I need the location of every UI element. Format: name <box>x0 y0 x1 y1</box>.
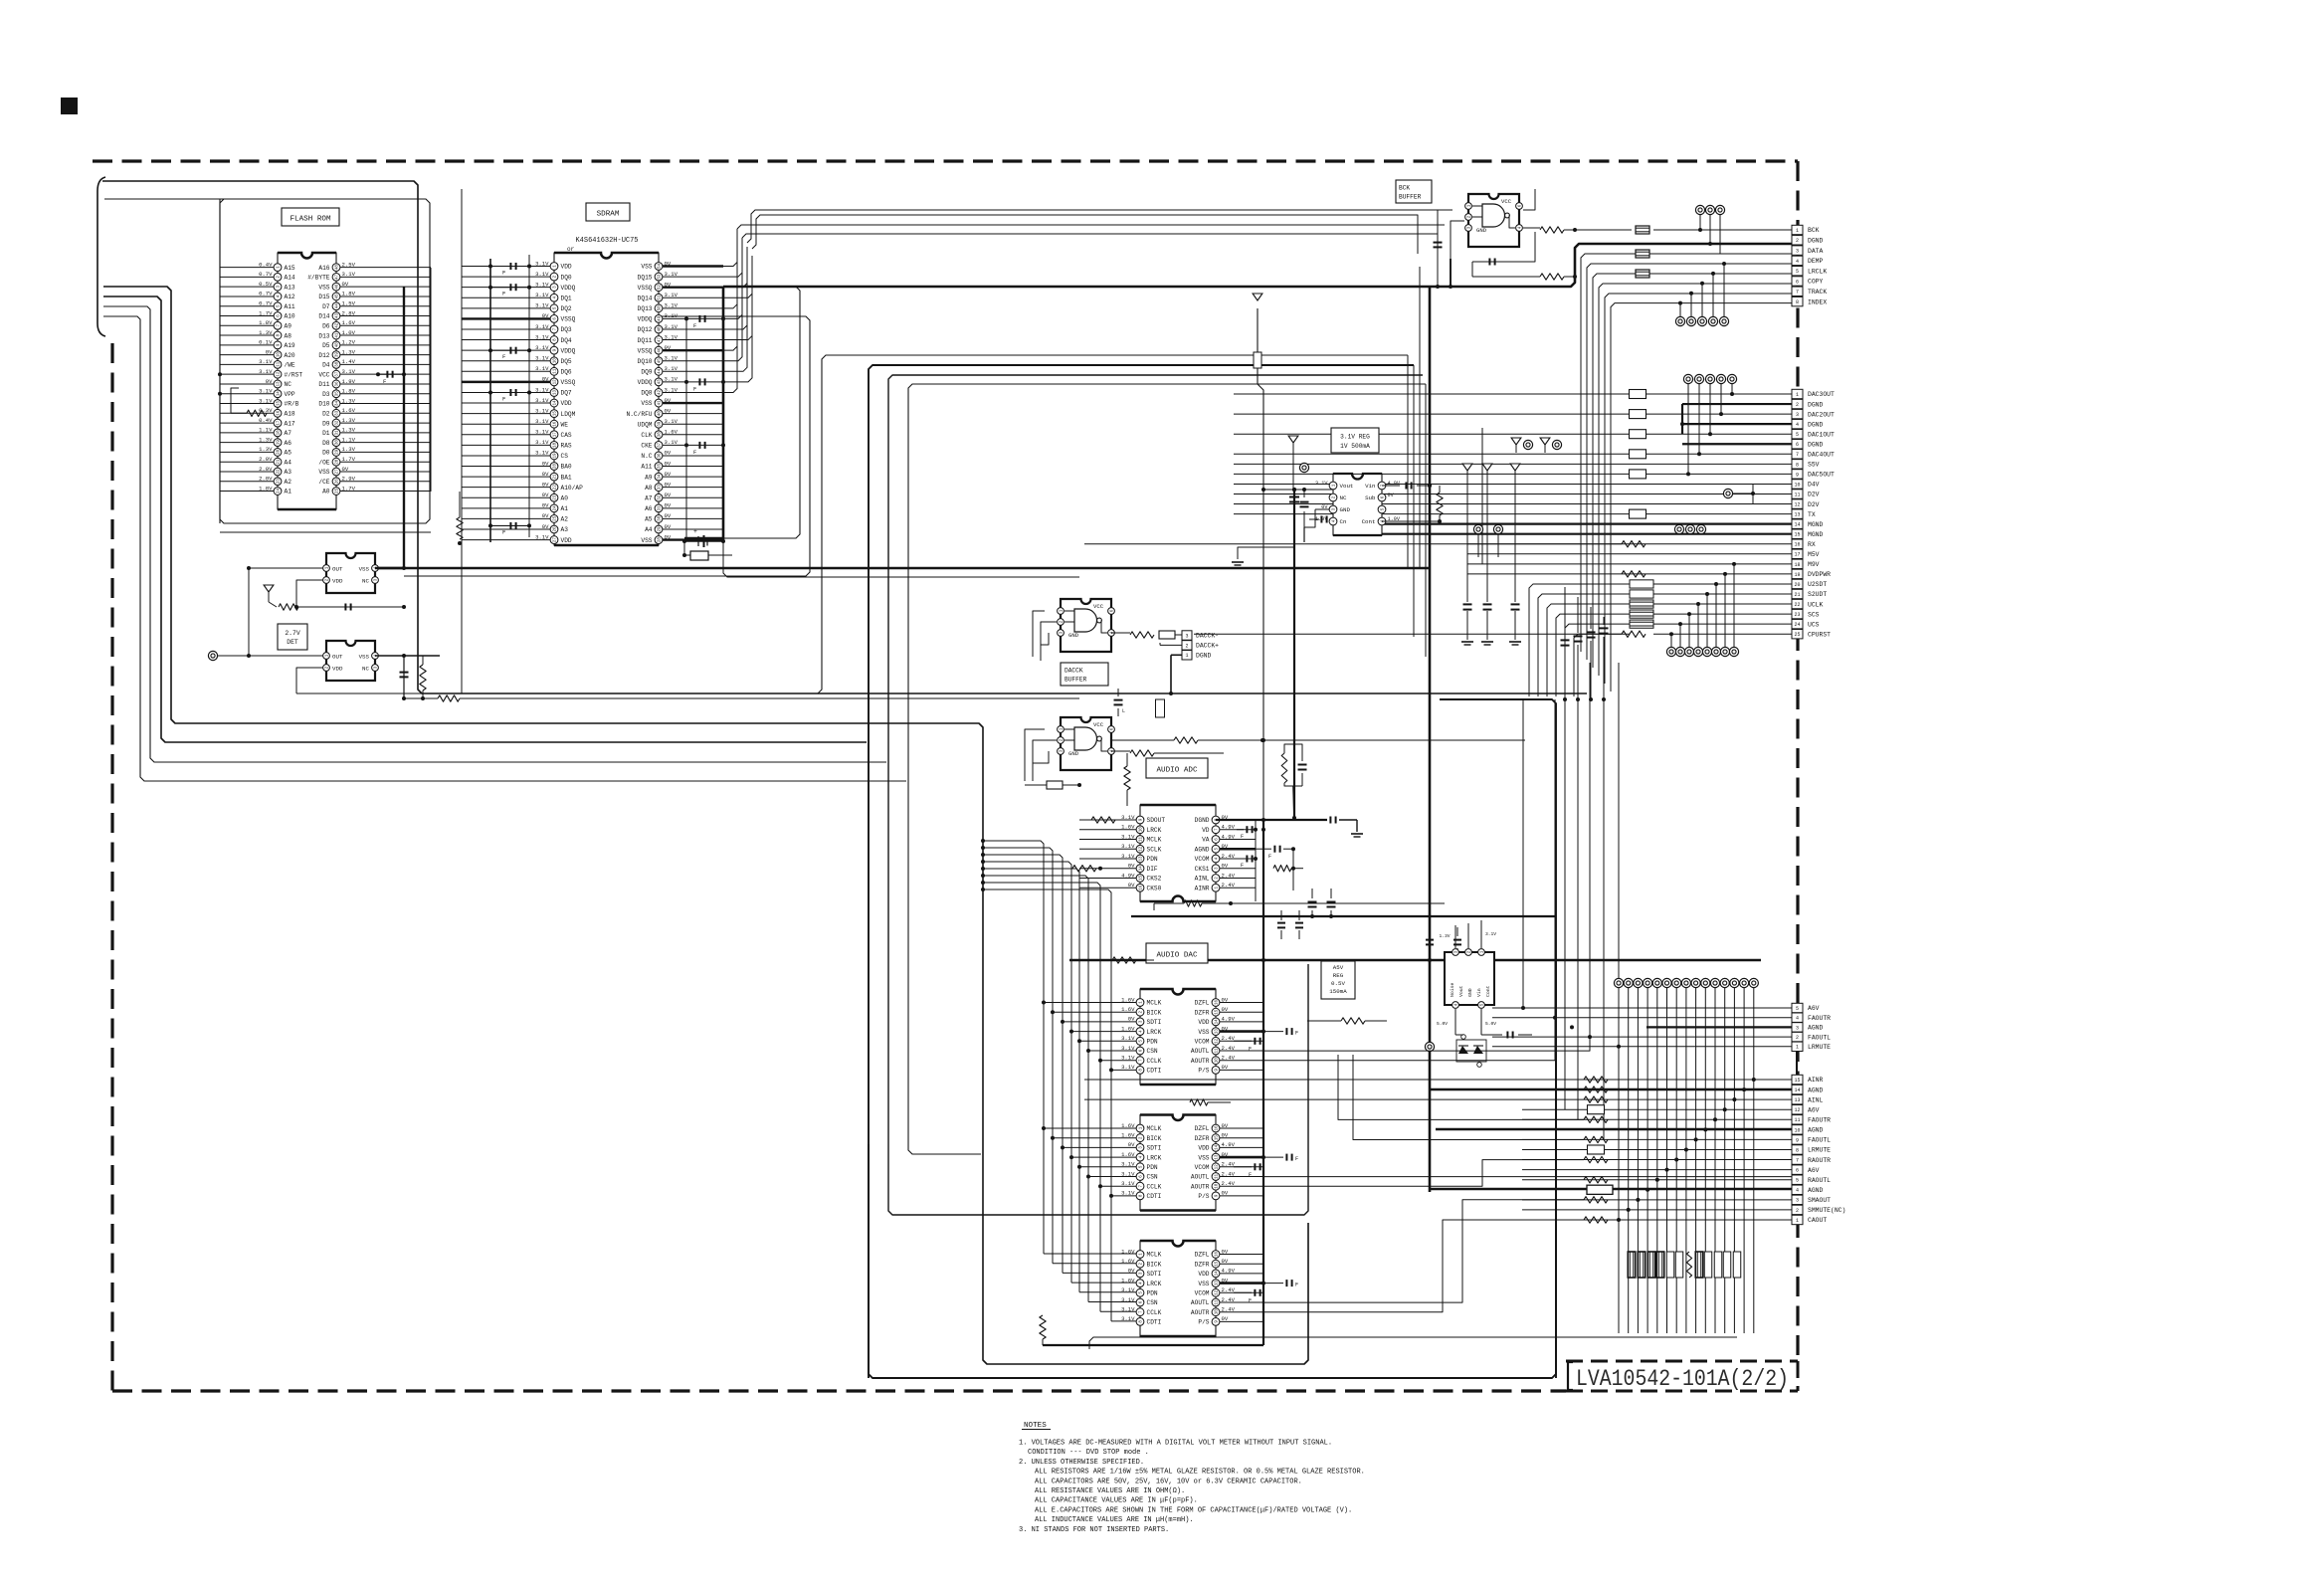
d2v test point <box>1723 489 1732 497</box>
svg-text:M5V: M5V <box>1808 551 1820 558</box>
svg-text:BUFFER: BUFFER <box>1065 677 1087 684</box>
svg-text:1.7V: 1.7V <box>259 309 273 316</box>
label 2.7v det box <box>278 624 307 650</box>
svg-text:0V: 0V <box>266 378 273 385</box>
svg-text:0.4V: 0.4V <box>259 417 273 424</box>
svg-text:DQ10: DQ10 <box>638 358 653 365</box>
ic audio adc U9 <box>1140 805 1216 901</box>
svg-text:VSS: VSS <box>641 537 652 544</box>
svg-text:1.0V: 1.0V <box>342 329 356 336</box>
svg-text:46: 46 <box>336 284 340 290</box>
wire flash right bus verticals <box>430 268 432 492</box>
svg-text:14: 14 <box>1794 522 1800 528</box>
svg-text:K4S641632H-UC75: K4S641632H-UC75 <box>575 237 638 245</box>
svg-text:1.6V: 1.6V <box>342 407 356 414</box>
svg-text:PDN: PDN <box>1147 1164 1158 1171</box>
svg-text:VDD: VDD <box>1198 1271 1209 1278</box>
svg-text:3.1V: 3.1V <box>1315 481 1328 487</box>
svg-text:A1: A1 <box>561 505 569 512</box>
svg-text:F: F <box>1249 1172 1252 1178</box>
svg-text:VDD: VDD <box>561 400 572 407</box>
svg-text:DQ11: DQ11 <box>638 337 653 344</box>
svg-text:A5: A5 <box>285 450 292 457</box>
svg-text:D1: D1 <box>322 430 330 437</box>
svg-text:16: 16 <box>1216 1000 1220 1006</box>
svg-text:8: 8 <box>1796 1147 1799 1153</box>
svg-text:BUFFER: BUFFER <box>1399 194 1422 201</box>
svg-text:BICK: BICK <box>1147 1135 1162 1142</box>
svg-text:10: 10 <box>1140 827 1144 833</box>
wires to connector CN4 <box>1084 1079 1792 1081</box>
svg-text:0V: 0V <box>665 471 672 478</box>
svg-text:3.1V: 3.1V <box>535 323 549 330</box>
svg-text:2.4V: 2.4V <box>1222 1161 1236 1168</box>
svg-text:0V: 0V <box>1222 1122 1229 1129</box>
svg-text:11: 11 <box>1140 837 1144 843</box>
svg-text:+: + <box>693 528 697 535</box>
svg-text:Vin: Vin <box>1365 483 1375 490</box>
svg-text:SCLK: SCLK <box>1147 846 1162 853</box>
wire cn3 to cn4 link <box>1796 1027 1798 1080</box>
svg-text:CKS2: CKS2 <box>1147 876 1162 883</box>
capacitor cn <box>1309 518 1319 520</box>
capacitor reset <box>344 604 346 611</box>
svg-text:D9: D9 <box>322 420 330 427</box>
wire dacck nand in <box>1033 611 1045 657</box>
svg-text:DACCK+: DACCK+ <box>1196 643 1219 650</box>
wire bottom long return <box>868 1144 870 1378</box>
svg-text:23: 23 <box>1794 612 1800 618</box>
svg-text:1.6V: 1.6V <box>342 319 356 326</box>
svg-text:NC: NC <box>1340 494 1347 501</box>
svg-text:16: 16 <box>1216 1125 1220 1131</box>
svg-text:AOUTL: AOUTL <box>1191 1048 1210 1055</box>
svg-text:13: 13 <box>1216 1154 1220 1160</box>
svg-text:0V: 0V <box>1128 1268 1135 1275</box>
svg-text:0V: 0V <box>665 481 672 488</box>
svg-text:31: 31 <box>336 430 340 436</box>
svg-text:1.6V: 1.6V <box>1121 1132 1135 1139</box>
svg-text:SMMUTE(NC): SMMUTE(NC) <box>1808 1207 1845 1214</box>
svg-text:2.8V: 2.8V <box>342 309 356 316</box>
svg-text:VCOM: VCOM <box>1195 1290 1210 1297</box>
svg-text:1.1V: 1.1V <box>259 427 273 434</box>
svg-text:L: L <box>1122 708 1125 714</box>
wires to connector CN2 long rows <box>1234 393 1792 395</box>
wire reset2 vdd <box>296 668 326 693</box>
wire flash left pin stubs <box>220 267 278 269</box>
wire dac signal bus verticals <box>983 841 1044 1254</box>
svg-text:A9: A9 <box>645 474 653 481</box>
svg-text:10: 10 <box>1794 1127 1800 1133</box>
svg-text:A8: A8 <box>285 332 292 339</box>
wire flash bottom return <box>220 531 431 533</box>
svg-text:2.4V: 2.4V <box>1222 1055 1236 1062</box>
connector dacck 3pin <box>1182 631 1192 640</box>
capacitor adc vcom <box>1237 858 1244 860</box>
svg-text:0V: 0V <box>542 312 549 319</box>
wire agnd row10 feed <box>1436 1128 1792 1130</box>
wire 5v vertical x1564 lower <box>1555 960 1557 1378</box>
svg-text:3.1V: 3.1V <box>1121 843 1135 850</box>
svg-text:BCK: BCK <box>1399 185 1410 192</box>
svg-text:F: F <box>1249 1297 1252 1303</box>
svg-text:D7: D7 <box>322 303 330 310</box>
capacitor dac2 vcom <box>1234 1166 1252 1168</box>
svg-text:3: 3 <box>1796 1198 1799 1204</box>
capacitor bck vcc <box>1472 261 1512 263</box>
junction dots flash <box>218 372 222 376</box>
wire sdram left rails <box>461 189 463 693</box>
svg-text:3.1V: 3.1V <box>665 271 678 278</box>
svg-text:BICK: BICK <box>1147 1261 1162 1268</box>
resistor bck out <box>1540 227 1564 233</box>
wire agnd row4 feed <box>1430 1188 1792 1190</box>
svg-text:3.1V: 3.1V <box>1121 1315 1135 1322</box>
svg-text:D8: D8 <box>322 440 330 447</box>
svg-text:14: 14 <box>1216 1019 1220 1025</box>
test points above cn2 <box>1683 374 1692 383</box>
svg-text:1.7V: 1.7V <box>342 485 356 492</box>
svg-text:2.4V: 2.4V <box>1222 872 1236 879</box>
svg-text:D12: D12 <box>318 352 329 359</box>
svg-text:10: 10 <box>278 352 282 358</box>
svg-text:1.6V: 1.6V <box>1121 1248 1135 1255</box>
svg-text:F: F <box>1241 863 1244 869</box>
svg-text:A18: A18 <box>285 411 295 418</box>
svg-text:0V: 0V <box>266 348 273 355</box>
test points top right <box>1695 205 1704 214</box>
svg-text:FAOUTR: FAOUTR <box>1808 1015 1831 1022</box>
svg-text:24: 24 <box>554 505 558 511</box>
svg-text:2.4V: 2.4V <box>1222 1045 1236 1052</box>
svg-text:A11: A11 <box>641 464 652 471</box>
svg-text:VCOM: VCOM <box>1195 856 1210 863</box>
svg-text:3. NI STANDS FOR NOT INSERTED: 3. NI STANDS FOR NOT INSERTED PARTS. <box>1019 1526 1169 1534</box>
svg-text:10: 10 <box>1216 1183 1220 1189</box>
svg-text:22: 22 <box>554 485 558 491</box>
ground tp pairs <box>1511 438 1521 445</box>
svg-text:A2: A2 <box>285 479 292 486</box>
svg-text:VDD: VDD <box>561 537 572 544</box>
wire middle vertical V1 <box>869 365 1556 1378</box>
svg-text:DQ3: DQ3 <box>561 326 572 333</box>
svg-text:AOUTL: AOUTL <box>1191 1299 1210 1306</box>
svg-text:LRCLK: LRCLK <box>1808 268 1827 275</box>
svg-text:3.1V: 3.1V <box>535 344 549 351</box>
svg-text:27: 27 <box>336 469 340 475</box>
svg-text:1.6V: 1.6V <box>1121 996 1135 1003</box>
svg-text:17: 17 <box>1794 552 1800 558</box>
svg-text:3.1V: 3.1V <box>1121 1306 1135 1313</box>
svg-text:1: 1 <box>1796 392 1799 398</box>
svg-text:2.4V: 2.4V <box>1222 1306 1236 1313</box>
svg-text:DZFL: DZFL <box>1195 1125 1210 1132</box>
wire sdram right fan to top <box>723 229 737 267</box>
svg-text:14: 14 <box>1140 866 1144 872</box>
svg-text:0V: 0V <box>665 512 672 519</box>
svg-text:F: F <box>502 291 505 297</box>
svg-text:A6: A6 <box>285 440 292 447</box>
svg-text:DQ13: DQ13 <box>638 305 653 312</box>
svg-text:SDTI: SDTI <box>1147 1019 1162 1026</box>
svg-text:ALL CAPACITORS ARE 50V, 25V, 1: ALL CAPACITORS ARE 50V, 25V, 16V, 10V or… <box>1035 1478 1302 1485</box>
svg-text:P/S: P/S <box>1198 1193 1209 1200</box>
svg-text:0V: 0V <box>1222 1064 1229 1071</box>
test points below cn2 <box>1666 647 1675 656</box>
svg-text:0V: 0V <box>665 460 672 467</box>
svg-text:1.9V: 1.9V <box>1315 516 1328 522</box>
svg-text:3: 3 <box>1185 633 1188 639</box>
svg-text:16: 16 <box>1794 542 1800 548</box>
svg-text:3.1V: 3.1V <box>535 281 549 288</box>
fuse dacck <box>1159 631 1175 639</box>
svg-text:3.1V: 3.1V <box>665 418 678 425</box>
svg-text:DGND: DGND <box>1808 238 1824 245</box>
svg-text:28: 28 <box>659 537 663 543</box>
svg-text:5.0V: 5.0V <box>1437 1021 1448 1027</box>
wires to connector CN1 <box>1581 254 1792 652</box>
svg-text:3.1V: 3.1V <box>1121 1296 1135 1303</box>
svg-text:F: F <box>1268 854 1271 860</box>
svg-text:0V: 0V <box>542 481 549 488</box>
svg-text:CONDITION --- DVD STOP mode .: CONDITION --- DVD STOP mode . <box>1028 1449 1149 1457</box>
svg-text:CCLK: CCLK <box>1147 1183 1162 1190</box>
capacitor adc vd <box>1237 829 1244 831</box>
svg-text:DAC2OUT: DAC2OUT <box>1808 411 1835 418</box>
svg-text:CSN: CSN <box>1147 1299 1158 1306</box>
svg-text:12: 12 <box>278 371 282 377</box>
svg-text:0V: 0V <box>1222 1151 1229 1158</box>
svg-text:3.1V: 3.1V <box>535 418 549 425</box>
ferrite bck line <box>1636 226 1649 234</box>
wire sdram to bck long <box>737 225 1445 229</box>
capacitor dac3 vss <box>1263 1283 1283 1284</box>
svg-text:0V: 0V <box>665 260 672 267</box>
svg-text:14: 14 <box>1794 1087 1800 1093</box>
svg-text:11: 11 <box>278 361 282 367</box>
svg-text:31: 31 <box>659 505 663 511</box>
svg-text:2: 2 <box>1185 643 1188 649</box>
svg-text:/CE: /CE <box>318 479 329 486</box>
svg-text:2.0V: 2.0V <box>259 456 273 463</box>
svg-text:3.1V: 3.1V <box>1121 814 1135 821</box>
svg-text:13: 13 <box>1794 1097 1800 1103</box>
svg-text:GND: GND <box>1068 750 1079 757</box>
resistor bck lower <box>1540 274 1564 280</box>
svg-text:16: 16 <box>554 421 558 427</box>
svg-text:AUDIO ADC: AUDIO ADC <box>1156 767 1197 775</box>
ferrite bars bottom right <box>1628 1252 1636 1278</box>
svg-text:F: F <box>693 386 696 392</box>
resistor dacck2 out b <box>1174 737 1198 743</box>
svg-text:25: 25 <box>336 489 340 494</box>
svg-text:LDQM: LDQM <box>561 411 576 418</box>
svg-text:ALL INDUCTANCE VALUES ARE IN μ: ALL INDUCTANCE VALUES ARE IN μH(m=mH). <box>1035 1516 1194 1524</box>
svg-text:ALL RESISTORS ARE 1/16W ±5% M: ALL RESISTORS ARE 1/16W ±5% METAL GLAZE … <box>1035 1469 1365 1477</box>
svg-text:1.2V: 1.2V <box>342 339 356 346</box>
svg-text:OUT: OUT <box>332 653 343 660</box>
svg-text:41: 41 <box>659 400 663 406</box>
svg-text:A19: A19 <box>285 342 295 349</box>
svg-text:2.4V: 2.4V <box>1222 1286 1236 1293</box>
svg-text:PDN: PDN <box>1147 1039 1158 1046</box>
svg-text:F: F <box>693 323 696 329</box>
wires cn2 row left bends <box>1529 584 1630 696</box>
svg-text:27: 27 <box>554 537 558 543</box>
svg-text:DQ4: DQ4 <box>561 337 572 344</box>
resistor rx row <box>1622 541 1646 547</box>
svg-text:36: 36 <box>336 381 340 387</box>
svg-text:37: 37 <box>659 442 663 448</box>
svg-text:ALL CAPACITANCE VALUES ARE IN: ALL CAPACITANCE VALUES ARE IN μF(p=pF). <box>1035 1497 1198 1505</box>
connector CN1 8pin <box>1792 225 1803 234</box>
junction rows below adc <box>1153 903 1155 910</box>
svg-text:26: 26 <box>336 479 340 485</box>
svg-text:47: 47 <box>659 337 663 343</box>
svg-text:A13: A13 <box>285 284 295 291</box>
svg-text:6: 6 <box>1796 442 1799 448</box>
svg-text:26: 26 <box>554 526 558 532</box>
svg-text:F: F <box>502 270 505 277</box>
wire W1 top feed <box>102 181 1587 693</box>
svg-text:3.1V: 3.1V <box>665 292 678 298</box>
svg-text:A4: A4 <box>645 526 653 533</box>
svg-text:12: 12 <box>1216 1289 1220 1295</box>
wire m5v m9v feeds <box>1466 479 1468 554</box>
svg-text:Cn: Cn <box>1340 518 1347 525</box>
ground reg bottom <box>1238 547 1294 559</box>
wire bck output <box>1523 227 1540 229</box>
svg-text:CDTI: CDTI <box>1147 1068 1162 1075</box>
svg-text:5: 5 <box>1796 269 1799 275</box>
svg-text:3.1V: 3.1V <box>665 333 678 340</box>
svg-text:F: F <box>1241 834 1244 840</box>
wire thick vertical x1437 <box>1429 287 1432 1192</box>
ground 3.1v reg <box>1288 436 1298 443</box>
svg-text:10: 10 <box>554 358 558 364</box>
svg-text:3.1V: 3.1V <box>1121 1055 1135 1062</box>
svg-text:0.7V: 0.7V <box>259 300 273 307</box>
svg-text:6: 6 <box>1796 1168 1799 1174</box>
svg-text:A0: A0 <box>561 494 569 501</box>
svg-text:3.1V: 3.1V <box>665 439 678 446</box>
svg-text:6: 6 <box>1796 279 1799 285</box>
svg-text:43: 43 <box>659 379 663 385</box>
svg-text:1.3V: 1.3V <box>342 397 356 404</box>
svg-text:DGND: DGND <box>1195 817 1210 824</box>
svg-text:DGND: DGND <box>1808 401 1824 408</box>
wire middle vertical V3 <box>908 384 1426 1154</box>
svg-text:LRCK: LRCK <box>1147 1029 1162 1036</box>
svg-text:30: 30 <box>659 515 663 521</box>
svg-text:P/S: P/S <box>1198 1068 1209 1075</box>
wire dgnd cn2 feed <box>1681 404 1683 434</box>
wire bus B2 <box>103 296 867 742</box>
svg-text:VSS: VSS <box>359 653 370 660</box>
svg-text:3.1V: 3.1V <box>535 533 549 540</box>
svg-text:M9V: M9V <box>1808 561 1820 568</box>
svg-text:2.0V: 2.0V <box>259 466 273 473</box>
svg-text:7: 7 <box>1796 452 1799 458</box>
test point reset2 <box>208 651 217 660</box>
capacitor adc agand <box>1256 848 1271 850</box>
ic audio dac U10 <box>1140 989 1216 1085</box>
svg-text:0V: 0V <box>1222 1190 1229 1197</box>
svg-text:1.3V: 1.3V <box>342 427 356 434</box>
resistor reset2 <box>420 665 426 691</box>
svg-text:3.1V: 3.1V <box>535 365 549 372</box>
svg-text:CKE: CKE <box>641 443 652 450</box>
svg-text:VDD: VDD <box>561 264 572 271</box>
svg-text:VCOM: VCOM <box>1195 1039 1210 1046</box>
svg-text:A6V: A6V <box>1808 1106 1820 1113</box>
wire vin cap <box>1382 485 1400 487</box>
svg-text:GND: GND <box>1340 506 1351 513</box>
test point below caps <box>1425 1042 1434 1051</box>
svg-text:3.1V: 3.1V <box>342 271 356 278</box>
page marker square <box>61 98 78 114</box>
svg-text:Noise: Noise <box>1450 982 1455 997</box>
wire sdram bottom exit <box>723 542 1079 577</box>
svg-text:1: 1 <box>1796 1045 1799 1051</box>
svg-text:4.9V: 4.9V <box>1121 872 1135 879</box>
caps row below adc <box>1280 910 1282 920</box>
wire adc dgnd row thick <box>1216 819 1327 821</box>
wire dacck2 in <box>1025 729 1045 781</box>
svg-text:3.1V: 3.1V <box>535 333 549 340</box>
svg-text:DQ9: DQ9 <box>641 369 652 376</box>
svg-text:Sub: Sub <box>1365 494 1376 501</box>
svg-text:F: F <box>502 353 505 360</box>
svg-text:34: 34 <box>659 474 663 480</box>
dashed schematic border frame <box>93 161 1798 1391</box>
wire dgnd to top connector <box>723 244 1792 287</box>
wire adc left pin stubs <box>1079 819 1140 821</box>
svg-text:A3: A3 <box>561 526 569 533</box>
svg-text:0V: 0V <box>665 344 672 351</box>
resistor dacck2 out a <box>1111 750 1130 752</box>
svg-text:4.9V: 4.9V <box>1222 1141 1236 1148</box>
svg-text:CPURST: CPURST <box>1808 631 1831 638</box>
svg-text:DZFL: DZFL <box>1195 1000 1210 1007</box>
svg-text:AINL: AINL <box>1195 876 1210 883</box>
svg-text:D0: D0 <box>322 450 330 457</box>
svg-text:13: 13 <box>554 389 558 395</box>
svg-text:DZFR: DZFR <box>1195 1261 1210 1268</box>
svg-text:1.3V: 1.3V <box>259 329 273 336</box>
svg-text:UDQM: UDQM <box>638 421 653 428</box>
capacitors noise reg top <box>1429 927 1431 936</box>
capacitor dac2 vss <box>1263 1156 1283 1158</box>
svg-text:LRCK: LRCK <box>1147 1154 1162 1161</box>
svg-text:3.1V: 3.1V <box>535 429 549 436</box>
svg-text:NOTES: NOTES <box>1024 1422 1047 1430</box>
svg-text:AOUTL: AOUTL <box>1191 1174 1210 1181</box>
svg-text:A8: A8 <box>645 485 653 492</box>
capacitor vout <box>1303 490 1305 497</box>
wire vout <box>1263 489 1333 491</box>
wire a5v rail <box>1069 959 1761 961</box>
svg-text:CCLK: CCLK <box>1147 1058 1162 1065</box>
svg-text:37: 37 <box>336 371 340 377</box>
resistor dac3 left <box>1040 1315 1046 1339</box>
svg-text:3.1V: 3.1V <box>1121 1035 1135 1042</box>
svg-text:CSN: CSN <box>1147 1048 1158 1055</box>
svg-text:3: 3 <box>1796 1025 1799 1031</box>
svg-text:VDDQ: VDDQ <box>638 316 653 323</box>
svg-text:1.3V: 1.3V <box>342 348 356 355</box>
